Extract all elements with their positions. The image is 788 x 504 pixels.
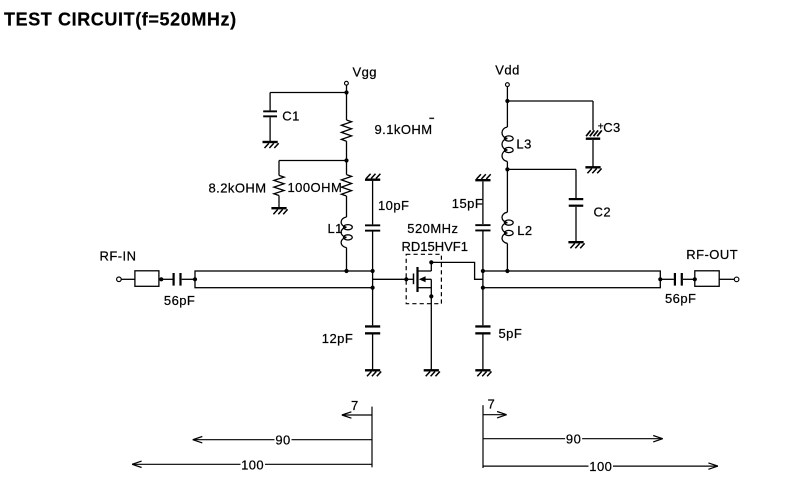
wire to 56pF [159, 278, 173, 280]
microstrip transmission line input TL2 [195, 271, 373, 288]
capacitor 15pF [475, 224, 490, 231]
dimension 100 left [132, 463, 372, 465]
wire 8.2kOHM top [278, 161, 280, 176]
wire 8.2kOHM to ground [278, 196, 280, 209]
dimension 7 right [483, 414, 507, 416]
chassis ground above 15pF [475, 174, 490, 180]
junction source pin [429, 294, 433, 298]
svg-text:C1: C1 [282, 108, 300, 123]
dimension 100 right [483, 465, 718, 467]
stray mark [429, 118, 434, 120]
wire chassis to 15pF [482, 181, 484, 224]
svg-text:Vdd: Vdd [495, 62, 519, 77]
dim label 100 right [589, 460, 614, 473]
wire stub to RF-OUT [719, 278, 734, 280]
RF-OUT terminal [734, 277, 739, 282]
capacitor C3 electrolytic [586, 130, 602, 138]
junction line bottom/5pF [481, 286, 485, 290]
RF-IN terminal [117, 277, 122, 282]
microstrip transmission line output TL3 [483, 271, 660, 288]
wire C3 to ground [592, 140, 594, 167]
svg-text:10pF: 10pF [378, 198, 409, 213]
svg-text:56pF: 56pF [164, 293, 195, 308]
wire resistor to resistor [346, 141, 348, 174]
capacitor 5pF [475, 325, 490, 334]
ground under 8.2kOHM [271, 208, 287, 214]
wire chassis to 10pF [372, 181, 374, 225]
resistor 100OHM [341, 175, 351, 196]
svg-text:100: 100 [589, 459, 612, 474]
junction Vgg/C1 [344, 90, 348, 94]
ground under 5pF [475, 370, 491, 376]
wire L1 to line [346, 248, 348, 271]
wire L3 to L2 [506, 162, 508, 213]
junction 15pF/line top [481, 269, 485, 273]
junction L1/main line [344, 269, 348, 273]
dimension 90 left [193, 439, 372, 441]
svg-text:90: 90 [566, 432, 581, 447]
wire 100OHM to L1 [346, 196, 348, 217]
resistor 8.2kOHM [274, 175, 284, 195]
wire 56pF to main line [182, 278, 195, 280]
wire C1 top [269, 93, 271, 111]
svg-text:100OHM: 100OHM [288, 180, 343, 195]
chassis ground above 10pF [365, 174, 380, 180]
svg-text:7: 7 [351, 398, 359, 413]
svg-text:RF-OUT: RF-OUT [686, 247, 738, 262]
junction L2/line [505, 269, 509, 273]
dim label 90 left [275, 434, 292, 447]
junction 10pF/line top [371, 269, 375, 273]
svg-text:TEST CIRCUIT(f=520MHz): TEST CIRCUIT(f=520MHz) [4, 10, 237, 30]
ground under C3 [585, 167, 601, 173]
svg-text:C3: C3 [603, 120, 621, 135]
wire 10pF to line [372, 231, 374, 271]
capacitor 12pF [365, 325, 380, 334]
junction C/main line input [193, 277, 197, 281]
svg-text:L3: L3 [516, 136, 531, 151]
resistor 9.1kOHM [341, 120, 351, 141]
wire source to ground [430, 296, 432, 370]
wire gate [373, 278, 407, 280]
ground under C1 [263, 142, 279, 148]
dimension 90 right [483, 438, 663, 440]
wire drain to output line [431, 262, 483, 279]
wire L2 to line [506, 243, 508, 271]
wire Vdd down [506, 87, 508, 127]
svg-text:15pF: 15pF [452, 196, 483, 211]
ground under 12pF [365, 370, 381, 376]
junction drain pin [429, 260, 433, 264]
wire C1 to ground [269, 117, 271, 142]
svg-text:Vgg: Vgg [353, 64, 377, 79]
dimension 7 left [342, 414, 372, 416]
junction 56pF/stub output [693, 277, 697, 281]
svg-text:56pF: 56pF [665, 291, 696, 306]
svg-text:9.1kOHM: 9.1kOHM [375, 122, 433, 137]
svg-text:100: 100 [241, 457, 264, 472]
wire C2 to ground [575, 207, 577, 242]
wire to C1 [270, 92, 346, 94]
dimension reference line left [371, 407, 373, 468]
wire 56pF to output stub [683, 278, 695, 280]
capacitor 56pF input [173, 273, 182, 286]
junction bias divider [344, 158, 348, 162]
wire to 8.2kOHM [279, 160, 347, 162]
svg-text:RF-IN: RF-IN [100, 248, 137, 263]
wire Vgg down [346, 85, 348, 120]
junction Vdd/C3 [505, 99, 509, 103]
svg-text:L1: L1 [328, 221, 343, 236]
Vdd terminal [506, 83, 510, 87]
svg-text:520MHz: 520MHz [407, 221, 458, 236]
svg-text:90: 90 [275, 433, 290, 448]
wire C3 top [592, 101, 594, 130]
svg-text:5pF: 5pF [499, 326, 523, 341]
inductor L3 [502, 127, 513, 162]
capacitor 10pF [365, 224, 380, 231]
svg-text:L2: L2 [517, 223, 532, 238]
svg-text:7: 7 [488, 397, 496, 412]
svg-text:8.2kOHM: 8.2kOHM [209, 180, 267, 195]
junction gate pin [404, 277, 408, 281]
wire C2 top [575, 169, 577, 198]
inductor L2 [502, 212, 513, 243]
ground under C2 [568, 242, 584, 248]
junction line bottom/12pF [371, 286, 375, 290]
wire RF-IN to input stub [121, 278, 135, 280]
Vgg terminal [345, 81, 349, 85]
wire line to 12pF [372, 288, 374, 326]
svg-text:RD15HVF1: RD15HVF1 [402, 239, 468, 254]
inductor L1 [341, 217, 352, 248]
microstrip stub output TL4 [695, 271, 719, 287]
dim label 90 right [565, 433, 582, 446]
wire 5pF to ground [482, 334, 484, 370]
junction L3/L2/C2 [505, 167, 509, 171]
capacitor C2 [569, 198, 584, 207]
dimension reference line right [482, 405, 484, 468]
transistor Q1 symbol [406, 262, 431, 296]
wire 12pF to ground [372, 334, 374, 370]
wire 15pF to line [482, 231, 484, 271]
capacitor 56pF output [674, 273, 683, 286]
svg-text:12pF: 12pF [322, 331, 353, 346]
junction line/56pF output [658, 277, 662, 281]
ground under source [424, 370, 440, 376]
capacitor C1 [263, 110, 277, 117]
wire line to 5pF [482, 288, 484, 326]
wire to C2 [507, 168, 576, 170]
dim label 100 left [241, 458, 266, 471]
wire to output 56pF [660, 278, 674, 280]
microstrip stub input TL1 [135, 271, 159, 287]
wire to C3 [507, 100, 593, 102]
svg-text:C2: C2 [594, 204, 612, 219]
transistor Q1 RD15HVF1 dashed package outline [406, 254, 441, 303]
junction stub/C input [159, 277, 163, 281]
